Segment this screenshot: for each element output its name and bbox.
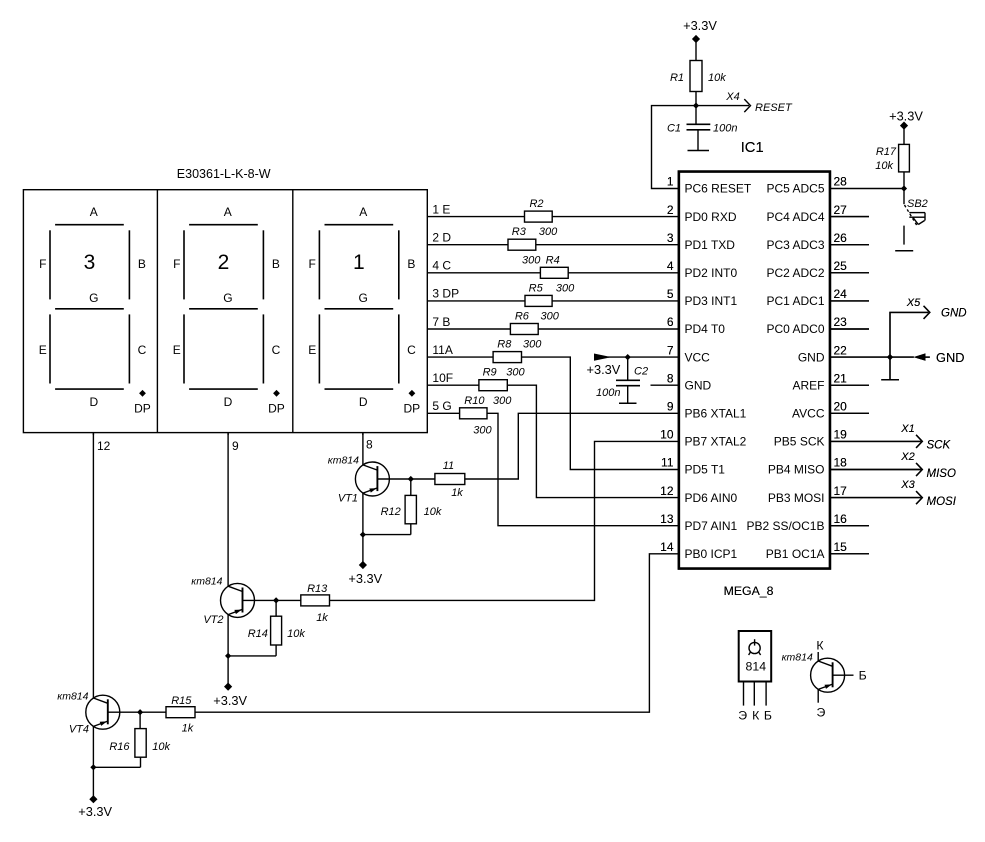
connector X5 GND arrow <box>890 297 967 357</box>
pin 5 PD3 INT1 <box>667 287 738 308</box>
pin 23 PC0 ADC0 <box>766 315 869 336</box>
node: VT4 emitter/R16 junction <box>90 764 96 770</box>
svg-text:AVCC: AVCC <box>792 407 825 421</box>
node: R17/SB2 junction <box>901 185 907 191</box>
transistor VT2 km814 <box>191 433 276 626</box>
resistor R14 10k <box>228 600 305 656</box>
svg-text:17: 17 <box>834 484 848 498</box>
power +3.3V terminal (VT4) <box>78 795 112 819</box>
svg-text:23: 23 <box>834 315 848 329</box>
wire: VT2 emitter down <box>227 615 229 687</box>
wire: resistor R3 to IC <box>536 244 679 246</box>
svg-text:C2: C2 <box>634 366 648 378</box>
svg-text:F: F <box>309 257 316 271</box>
connector X3 MOSI arrow <box>830 479 957 508</box>
svg-text:300: 300 <box>493 395 512 407</box>
digit cell 3: segment D <box>325 389 394 409</box>
svg-text:R6: R6 <box>515 311 530 323</box>
svg-text:1: 1 <box>353 251 365 274</box>
wire: IC pin 28 to R17/SB2 <box>830 188 904 190</box>
svg-text:R9: R9 <box>483 367 497 379</box>
wire: VT1 base junction to resistor 11 <box>411 478 435 480</box>
GND filled arrow at pin 22 <box>914 350 965 365</box>
svg-text:PD6 AIN0: PD6 AIN0 <box>685 491 738 505</box>
wire: VT1 emitter down <box>362 493 364 565</box>
svg-text:R1: R1 <box>670 72 684 84</box>
pin 1 PC6 RESET <box>667 175 752 196</box>
svg-text:R15: R15 <box>171 695 192 707</box>
wire: display 3 DP to resistor R5 <box>427 300 525 302</box>
wire: R8 to IC pin 11 <box>522 357 679 469</box>
svg-text:AREF: AREF <box>792 378 824 392</box>
svg-text:C: C <box>407 343 416 357</box>
svg-text:PD4 T0: PD4 T0 <box>685 322 726 336</box>
svg-text:+3.3V: +3.3V <box>889 109 923 124</box>
pin 26 PC3 ADC3 <box>766 231 869 252</box>
svg-text:9: 9 <box>667 400 674 414</box>
svg-text:300: 300 <box>522 254 541 266</box>
svg-text:28: 28 <box>834 175 848 189</box>
svg-text:G: G <box>359 291 368 305</box>
svg-text:C: C <box>138 343 147 357</box>
svg-text:4 C: 4 C <box>432 259 451 273</box>
pin 9 PB6 XTAL1 <box>667 400 747 421</box>
pin 18 PB4 MISO <box>768 456 847 477</box>
svg-text:GND: GND <box>936 350 964 365</box>
svg-text:PB6 XTAL1: PB6 XTAL1 <box>685 407 747 421</box>
node: VT4 base junction <box>137 709 143 715</box>
GND filled arrow at pin 22 <box>914 350 965 365</box>
wire: display 5 G to resistor R10 <box>427 412 459 414</box>
svg-text:F: F <box>173 257 180 271</box>
pin 14 PB0 ICP1 <box>660 540 737 561</box>
svg-text:GND: GND <box>941 308 967 320</box>
power +3.3V terminal (VT2) <box>213 683 247 709</box>
pin 6 PD4 T0 <box>667 315 725 336</box>
digit cell 3: segment F <box>309 230 320 299</box>
svg-text:RESET: RESET <box>755 102 793 114</box>
ground (SB2) <box>895 250 913 252</box>
pin 17 PB3 MOSI <box>768 484 847 505</box>
svg-text:A: A <box>224 205 232 219</box>
wire: R10 to IC pin 13 <box>487 413 679 525</box>
package pin labels <box>738 709 772 723</box>
svg-text:19: 19 <box>834 428 848 442</box>
pin 10 PB7 XTAL2 <box>660 428 746 449</box>
svg-text:X4: X4 <box>725 91 739 103</box>
svg-text:VCC: VCC <box>685 350 711 364</box>
power +3.3V terminal (R17 top) <box>889 109 923 145</box>
resistor R17 10k <box>875 144 909 188</box>
svg-text:GND: GND <box>685 378 712 392</box>
digit cell 2: segment E <box>173 314 184 383</box>
pin 19 PB5 SCK <box>774 428 847 449</box>
pin 17 PB3 MOSI <box>768 484 847 505</box>
wire: junction to IC pin 1 <box>652 106 697 189</box>
digit cell 1: segment E <box>39 314 50 383</box>
display common pin 8 wire <box>363 433 373 452</box>
svg-text:26: 26 <box>834 231 848 245</box>
digit cell 1: segment G <box>55 291 124 309</box>
wire: IC pin 10 to R13 <box>330 441 679 600</box>
connector X3 MOSI arrow <box>830 479 957 508</box>
pin 3 PD1 TXD <box>667 231 735 252</box>
digit cell 2: segment B <box>263 230 280 299</box>
svg-text:PC5 ADC5: PC5 ADC5 <box>766 182 824 196</box>
svg-text:PB4 MISO: PB4 MISO <box>768 463 825 477</box>
svg-text:E: E <box>173 343 181 357</box>
pin 21 AREF <box>792 371 869 392</box>
resistor R6 300 <box>510 311 559 335</box>
svg-text:10k: 10k <box>708 72 726 84</box>
digit cell 2: segment G <box>189 291 258 309</box>
resistor R16 10k <box>93 712 170 767</box>
svg-text:F: F <box>39 257 46 271</box>
digit cell 1: segment A <box>55 205 124 225</box>
pin 10 PB7 XTAL2 <box>660 428 746 449</box>
svg-text:D: D <box>89 395 98 409</box>
svg-text:SB2: SB2 <box>907 198 928 210</box>
svg-text:PC1 ADC1: PC1 ADC1 <box>766 294 824 308</box>
pin 20 AVCC <box>792 400 869 421</box>
svg-text:3 DP: 3 DP <box>432 287 459 301</box>
svg-text:Э: Э <box>816 706 825 720</box>
svg-text:7 B: 7 B <box>432 315 450 329</box>
svg-text:Б: Б <box>764 709 772 723</box>
ground (pin 22) <box>881 357 899 380</box>
pin 27 PC4 ADC4 <box>766 203 869 224</box>
svg-text:2 D: 2 D <box>432 231 451 245</box>
node: pin22/X5/ground junction <box>887 354 893 360</box>
svg-text:D: D <box>359 395 368 409</box>
svg-text:B: B <box>407 257 415 271</box>
pin 28 PC5 ADC5 <box>766 175 847 196</box>
pushbutton SB2 <box>904 189 928 245</box>
digit cell 3: segment B <box>399 230 416 299</box>
resistor R4 300 <box>522 254 568 278</box>
svg-text:PD2 INT0: PD2 INT0 <box>685 266 738 280</box>
digit cell 3: segment C <box>399 314 416 383</box>
digit cell 1: segment C <box>129 314 146 383</box>
pin 25 PC2 ADC2 <box>766 259 869 280</box>
svg-text:X2: X2 <box>900 451 914 463</box>
svg-text:Э: Э <box>738 709 747 723</box>
resistor R9 300 <box>479 367 526 391</box>
pin 9 PB6 XTAL1 <box>667 400 747 421</box>
pin 27 PC4 ADC4 <box>766 203 869 224</box>
svg-text:300: 300 <box>506 367 525 379</box>
svg-text:G: G <box>223 291 232 305</box>
svg-text:5: 5 <box>667 287 674 301</box>
svg-text:IC1: IC1 <box>741 140 764 156</box>
svg-text:PC2 ADC2: PC2 ADC2 <box>766 266 824 280</box>
wire: display 7 B to resistor R6 <box>427 328 510 330</box>
svg-text:PD1 TXD: PD1 TXD <box>685 238 736 252</box>
svg-text:24: 24 <box>834 287 848 301</box>
svg-text:10F: 10F <box>432 371 453 385</box>
capacitor C1 100n <box>667 106 738 151</box>
svg-text:PC0 ADC0: PC0 ADC0 <box>766 322 824 336</box>
pin 2 PD0 RXD <box>667 203 737 224</box>
power +3.3V terminal (VT1) <box>348 561 382 586</box>
digit cell 1: segment F <box>39 230 50 299</box>
svg-text:10k: 10k <box>875 160 893 172</box>
pin 1 PC6 RESET <box>667 175 752 196</box>
ground (C1) <box>688 150 710 152</box>
pin 28 PC5 ADC5 <box>766 175 847 196</box>
svg-text:1k: 1k <box>316 612 328 624</box>
svg-text:4: 4 <box>667 259 674 273</box>
wire: VT4 emitter down <box>92 726 94 799</box>
wire: display 1 E to resistor R2 <box>427 216 524 218</box>
pin 15 PB1 OC1A <box>766 540 869 561</box>
connector X2 MISO arrow <box>830 451 956 480</box>
svg-text:8: 8 <box>667 371 674 385</box>
resistor R8 300 <box>493 339 542 363</box>
digit cell 2: segment C <box>263 314 280 383</box>
svg-text:A: A <box>359 205 367 219</box>
display cell divider 2 <box>292 190 294 433</box>
pin 20 AVCC <box>792 400 869 421</box>
wire: IC pin 8 GND stub <box>651 384 679 386</box>
svg-text:12: 12 <box>97 439 111 453</box>
svg-text:100n: 100n <box>596 387 620 399</box>
svg-text:27: 27 <box>834 203 848 217</box>
svg-text:G: G <box>89 291 98 305</box>
connector X1 SCK arrow <box>830 423 952 452</box>
svg-text:PC4 ADC4: PC4 ADC4 <box>766 210 824 224</box>
svg-text:20: 20 <box>834 400 848 414</box>
svg-text:MOSI: MOSI <box>927 496 957 508</box>
package leg K <box>753 682 755 706</box>
wire: pin 22 to GND node <box>830 356 914 358</box>
wire: display 4 C to resistor R4 <box>427 272 540 274</box>
svg-text:E: E <box>308 343 316 357</box>
svg-text:2: 2 <box>667 203 674 217</box>
pin 16 PB2 SS/OC1B <box>746 512 869 533</box>
svg-text:11: 11 <box>661 456 674 470</box>
display common pin 9 wire <box>228 433 239 453</box>
ground (pin 22) <box>881 357 899 380</box>
digit cell 1: segment DP <box>134 390 151 416</box>
pin 15 PB1 OC1A <box>766 540 869 561</box>
resistor R5 300 <box>525 282 575 306</box>
svg-text:8: 8 <box>366 438 373 452</box>
digit cell 3: segment G <box>325 291 394 309</box>
resistor R12 10k <box>363 479 442 535</box>
svg-text:300: 300 <box>473 425 492 437</box>
svg-text:10k: 10k <box>287 628 305 640</box>
svg-text:R17: R17 <box>876 146 897 158</box>
pin 11 PD5 T1 <box>661 456 725 477</box>
pin 22 GND <box>798 343 847 364</box>
svg-text:14: 14 <box>660 540 674 554</box>
pin 19 PB5 SCK <box>774 428 847 449</box>
pin 22 GND <box>798 343 847 364</box>
svg-text:13: 13 <box>660 512 674 526</box>
pin 6 PD4 T0 <box>667 315 725 336</box>
display common pin 12 wire <box>93 433 110 453</box>
transistor VT1 km814 <box>328 433 411 505</box>
pin 5 PD3 INT1 <box>667 287 738 308</box>
digit cell 3: segment A <box>325 205 394 225</box>
svg-text:PD0 RXD: PD0 RXD <box>685 210 737 224</box>
svg-text:300: 300 <box>541 311 560 323</box>
svg-text:15: 15 <box>834 540 848 554</box>
connector X2 MISO arrow <box>830 451 956 480</box>
svg-text:10k: 10k <box>424 506 442 518</box>
digit cell 1: segment B <box>129 230 146 299</box>
resistor R2 <box>525 198 553 222</box>
svg-text:PB2 SS/OC1B: PB2 SS/OC1B <box>746 519 824 533</box>
svg-text:R13: R13 <box>307 583 328 595</box>
svg-text:VT4: VT4 <box>69 724 89 736</box>
svg-text:100n: 100n <box>713 123 737 135</box>
node: VT1 emitter/R12 junction <box>360 532 366 538</box>
wire: VT2 base junction to R13 <box>276 599 301 601</box>
svg-text:R8: R8 <box>497 339 512 351</box>
node: C2/VCC junction <box>625 354 631 360</box>
svg-text:9: 9 <box>232 439 239 453</box>
svg-text:25: 25 <box>834 259 848 273</box>
svg-text:11A: 11A <box>432 343 452 357</box>
wire: pin 22 to GND node <box>830 356 914 358</box>
svg-text:E: E <box>39 343 47 357</box>
pin 8 GND <box>667 371 712 392</box>
wire: VCC junction to IC pin 7 <box>628 356 679 358</box>
svg-text:X5: X5 <box>906 297 921 309</box>
svg-text:C: C <box>272 343 281 357</box>
pin 24 PC1 ADC1 <box>766 287 869 308</box>
pin 21 AREF <box>792 371 869 392</box>
display cell divider 1 <box>156 190 158 433</box>
connector X5 GND arrow <box>890 297 967 357</box>
svg-text:R14: R14 <box>248 628 268 640</box>
svg-text:C1: C1 <box>667 123 681 135</box>
pin 7 VCC <box>667 343 710 364</box>
transistor symbol km814 (legend) <box>782 639 867 720</box>
svg-text:DP: DP <box>268 402 285 416</box>
resistor R15 1k <box>166 695 195 735</box>
pin 26 PC3 ADC3 <box>766 231 869 252</box>
svg-text:7: 7 <box>667 343 674 357</box>
svg-text:3: 3 <box>84 251 96 274</box>
power +3.3V terminal (R1 top) <box>683 18 717 61</box>
svg-text:12: 12 <box>660 484 674 498</box>
pin 14 PB0 ICP1 <box>660 540 737 561</box>
transistor VT4 km814 <box>57 433 140 736</box>
pin 11 PD5 T1 <box>661 456 725 477</box>
resistor R13 1k <box>301 583 330 624</box>
svg-text:X1: X1 <box>900 423 914 435</box>
svg-text:B: B <box>272 257 280 271</box>
svg-text:22: 22 <box>834 343 848 357</box>
svg-text:+3.3V: +3.3V <box>78 804 112 819</box>
svg-text:3: 3 <box>667 231 674 245</box>
svg-text:D: D <box>224 395 233 409</box>
svg-text:1 E: 1 E <box>432 202 450 216</box>
wire: resistor R4 to IC <box>568 272 679 274</box>
svg-text:R12: R12 <box>381 506 401 518</box>
svg-text:814: 814 <box>746 659 767 673</box>
wire: display 10F to resistor R9 <box>427 384 479 386</box>
svg-text:PB0 ICP1: PB0 ICP1 <box>685 547 738 561</box>
svg-text:5 G: 5 G <box>432 399 451 413</box>
svg-text:PC3 ADC3: PC3 ADC3 <box>766 238 824 252</box>
svg-text:10: 10 <box>660 428 674 442</box>
svg-text:К: К <box>816 639 824 653</box>
svg-text:R5: R5 <box>529 282 544 294</box>
pin 8 GND <box>667 371 712 392</box>
svg-text:+3.3V: +3.3V <box>683 18 717 33</box>
node: VT2 base junction <box>273 597 279 603</box>
svg-text:К: К <box>752 709 760 723</box>
svg-text:DP: DP <box>134 402 151 416</box>
svg-text:PB1 OC1A: PB1 OC1A <box>766 547 825 561</box>
svg-text:кm814: кm814 <box>328 454 359 466</box>
digit cell 3: segment DP <box>403 390 420 416</box>
svg-text:18: 18 <box>834 456 848 470</box>
svg-text:2: 2 <box>218 251 230 274</box>
svg-text:+3.3V: +3.3V <box>587 362 621 377</box>
svg-text:GND: GND <box>798 350 825 364</box>
svg-text:+3.3V: +3.3V <box>348 571 382 586</box>
pin 4 PD2 INT0 <box>667 259 738 280</box>
svg-text:PB7 XTAL2: PB7 XTAL2 <box>685 435 747 449</box>
svg-text:VT1: VT1 <box>338 493 358 505</box>
pin 13 PD7 AIN1 <box>660 512 737 533</box>
pin 25 PC2 ADC2 <box>766 259 869 280</box>
wire: display 2 D to resistor R3 <box>427 244 508 246</box>
pin 7 VCC <box>667 343 710 364</box>
svg-text:1k: 1k <box>451 487 463 499</box>
wire: IC pin 14 to R15 <box>195 554 679 712</box>
IC IC1 MEGA_8 body <box>679 172 830 569</box>
svg-text:+3.3V: +3.3V <box>213 693 247 708</box>
digit cell 2: segment A <box>189 205 258 225</box>
pin 2 PD0 RXD <box>667 203 737 224</box>
svg-text:кm814: кm814 <box>191 576 222 588</box>
wire: resistor R6 to IC <box>538 328 679 330</box>
svg-text:PC6 RESET: PC6 RESET <box>685 182 752 196</box>
svg-text:1k: 1k <box>182 723 194 735</box>
svg-text:300: 300 <box>539 226 558 238</box>
svg-text:A: A <box>90 205 98 219</box>
svg-text:PD7 AIN1: PD7 AIN1 <box>685 519 738 533</box>
digit cell 2: segment F <box>173 230 184 299</box>
svg-text:кm814: кm814 <box>57 691 88 703</box>
svg-text:R3: R3 <box>512 226 527 238</box>
digit cell 3: segment E <box>308 314 319 383</box>
ground (C2) <box>619 402 637 404</box>
pin 23 PC0 ADC0 <box>766 315 869 336</box>
svg-text:16: 16 <box>834 512 848 526</box>
connector X4 RESET arrow <box>696 91 793 114</box>
wire: resistor R2 to IC <box>552 216 679 218</box>
svg-text:PD5 T1: PD5 T1 <box>685 463 726 477</box>
package leg B <box>765 682 767 706</box>
pin 12 PD6 AIN0 <box>660 484 737 505</box>
svg-text:VT2: VT2 <box>203 614 223 626</box>
wire: IC pin 9 to resistor 11 <box>465 413 679 479</box>
node: pin22/X5/ground junction <box>887 354 893 360</box>
pin 24 PC1 ADC1 <box>766 287 869 308</box>
resistor R3 300 <box>508 226 558 250</box>
svg-text:E30361-L-K-8-W: E30361-L-K-8-W <box>177 167 271 181</box>
pin 13 PD7 AIN1 <box>660 512 737 533</box>
svg-text:11: 11 <box>443 460 454 472</box>
pin 4 PD2 INT0 <box>667 259 738 280</box>
